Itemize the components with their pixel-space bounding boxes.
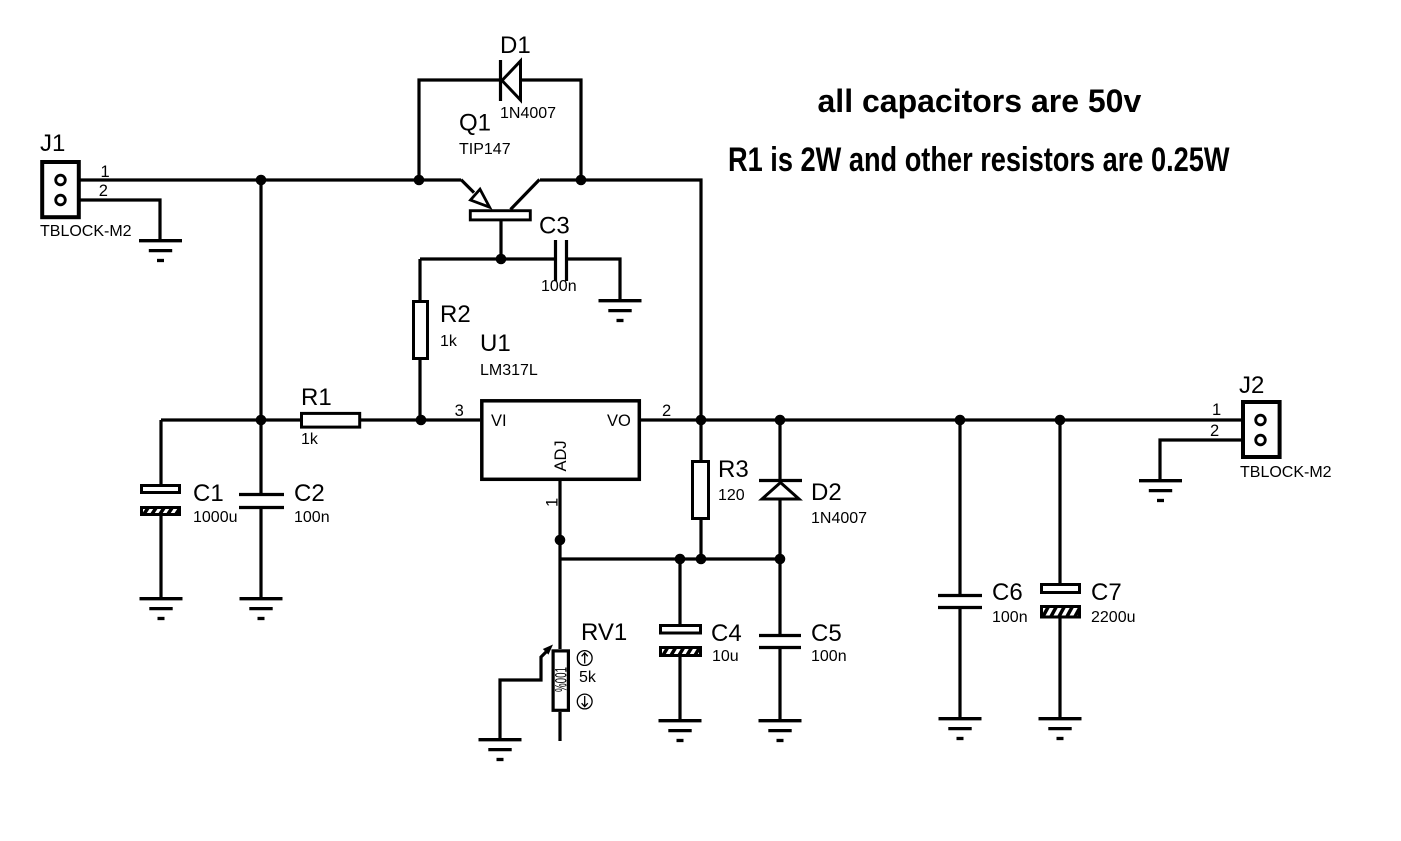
svg-text:TBLOCK-M2: TBLOCK-M2 (40, 223, 132, 240)
svg-text:C6: C6 (992, 579, 1023, 606)
svg-text:%001: %001 (551, 667, 571, 692)
svg-text:10u: 10u (712, 648, 739, 665)
svg-text:100n: 100n (541, 278, 577, 295)
svg-text:1N4007: 1N4007 (500, 105, 556, 122)
svg-text:ADJ: ADJ (552, 440, 570, 471)
svg-text:1k: 1k (301, 431, 319, 448)
svg-text:5k: 5k (579, 669, 597, 686)
svg-text:all capacitors are 50v: all capacitors are 50v (818, 83, 1142, 119)
svg-text:TIP147: TIP147 (459, 141, 511, 158)
svg-text:1: 1 (101, 163, 110, 181)
svg-text:C1: C1 (193, 480, 224, 507)
svg-text:U1: U1 (480, 330, 511, 357)
svg-text:J2: J2 (1239, 372, 1264, 399)
svg-text:R1 is 2W and other resistors a: R1 is 2W and other resistors are 0.25W (728, 140, 1230, 179)
svg-text:C5: C5 (811, 620, 842, 647)
svg-text:2: 2 (662, 402, 671, 420)
svg-text:1: 1 (1212, 401, 1221, 419)
svg-text:100n: 100n (992, 609, 1028, 626)
svg-text:RV1: RV1 (581, 619, 627, 646)
svg-text:120: 120 (718, 487, 745, 504)
svg-text:R3: R3 (718, 456, 749, 483)
svg-text:TBLOCK-M2: TBLOCK-M2 (1240, 464, 1332, 481)
svg-text:C7: C7 (1091, 579, 1122, 606)
svg-text:1: 1 (544, 498, 562, 507)
svg-text:Q1: Q1 (459, 110, 491, 137)
svg-text:R1: R1 (301, 384, 332, 411)
svg-text:C3: C3 (539, 213, 570, 240)
svg-text:3: 3 (455, 402, 464, 420)
svg-text:1k: 1k (440, 333, 458, 350)
svg-text:100n: 100n (294, 509, 330, 526)
svg-text:D1: D1 (500, 32, 531, 59)
svg-text:2200u: 2200u (1091, 609, 1136, 626)
svg-text:LM317L: LM317L (480, 362, 538, 379)
svg-text:J1: J1 (40, 130, 65, 157)
svg-text:C4: C4 (711, 620, 742, 647)
svg-text:100n: 100n (811, 648, 847, 665)
svg-text:D2: D2 (811, 479, 842, 506)
svg-text:VI: VI (491, 412, 507, 430)
svg-text:2: 2 (1210, 422, 1219, 440)
svg-text:1000u: 1000u (193, 509, 238, 526)
svg-text:VO: VO (607, 412, 631, 430)
svg-text:1N4007: 1N4007 (811, 510, 867, 527)
svg-text:C2: C2 (294, 480, 325, 507)
svg-text:2: 2 (99, 182, 108, 200)
svg-text:R2: R2 (440, 301, 471, 328)
